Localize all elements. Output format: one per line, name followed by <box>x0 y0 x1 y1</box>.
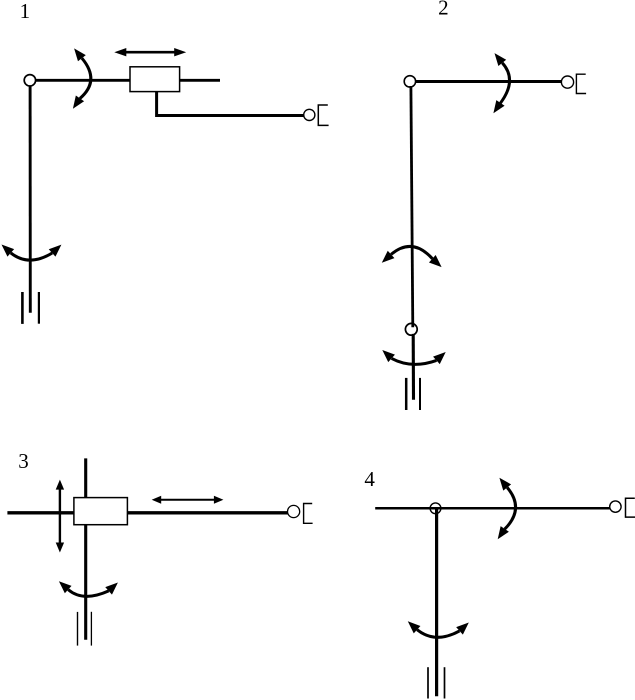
link 1d drop link from slider <box>157 91 304 115</box>
revolute joint J2b elbow circle <box>405 323 417 335</box>
end effector gripper bracket E3 <box>304 504 313 524</box>
rotation arrow R4a on horizontal arm <box>494 475 516 543</box>
prismatic joint P1 slider rectangle <box>130 67 180 92</box>
ground base 4 hatch right <box>444 667 446 698</box>
link 2c lower vertical column <box>412 334 415 400</box>
svg-text:4: 4 <box>364 467 375 491</box>
ground base 1 hatch right <box>38 292 40 324</box>
rotation arrow R2b mid column <box>378 246 444 270</box>
rotation arrow R2c about base <box>379 346 449 364</box>
end effector gripper bracket E1 <box>318 105 328 125</box>
rotation arrow R4b about base <box>404 618 472 638</box>
end effector wrist circle E1 <box>304 109 315 120</box>
prismatic joint P3 slider rectangle <box>74 498 128 525</box>
ground base 2 hatch right <box>419 378 421 410</box>
end effector wrist circle E4 <box>610 501 621 512</box>
end effector wrist circle E2 <box>561 76 573 88</box>
revolute joint J1 shoulder circle <box>24 75 35 86</box>
link 3a vertical column <box>84 458 87 639</box>
svg-text:1: 1 <box>20 0 31 23</box>
revolute joint J2a shoulder circle <box>404 76 415 87</box>
translation double arrow D1 above prismatic joint <box>114 48 186 56</box>
link 1c vertical column <box>29 80 32 312</box>
rotation arrow R3 about base <box>56 577 122 596</box>
end effector wrist circle E3 <box>288 505 300 517</box>
link 4b vertical column <box>435 509 438 697</box>
end effector gripper bracket E4 <box>626 498 635 517</box>
rotation arrow R1b about base column <box>0 241 65 260</box>
ground base 2 hatch left <box>405 378 408 410</box>
ground base 3 hatch left <box>77 612 79 646</box>
translation double arrow D3a vertical <box>56 480 64 553</box>
link 1a horizontal arm <box>30 79 220 82</box>
link 2a horizontal arm <box>410 80 561 83</box>
link 2b upper vertical column <box>411 86 413 327</box>
ground base 4 hatch left <box>427 667 429 698</box>
svg-text:2: 2 <box>438 0 449 19</box>
rotation arrow R1a on horizontal arm <box>69 45 91 111</box>
link 3b horizontal arm <box>7 511 287 514</box>
ground base 1 hatch left <box>21 292 24 324</box>
translation double arrow D3b horizontal <box>152 496 224 504</box>
revolute joint J4 circle <box>430 503 441 514</box>
svg-text:3: 3 <box>18 449 29 473</box>
end effector gripper bracket E2 <box>576 74 586 93</box>
ground base 3 hatch right <box>90 612 92 646</box>
rotation arrow R2a on horizontal arm <box>489 50 509 116</box>
link 4a horizontal arm <box>375 507 610 510</box>
